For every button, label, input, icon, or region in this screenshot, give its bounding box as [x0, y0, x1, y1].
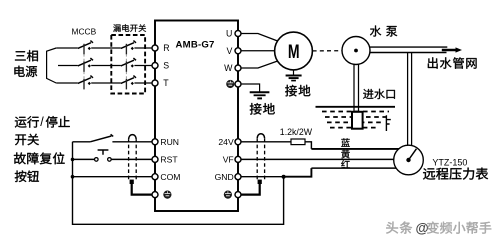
- wire RUN left: [73, 141, 91, 143]
- ELCB linkage: [125, 54, 127, 78]
- pipe to gauge: [408, 53, 412, 147]
- wire resistor to gauge (blue): [305, 142, 311, 149]
- flow arrow: [442, 49, 456, 52]
- wire V to motor: [241, 50, 275, 52]
- label 三相电源: [15, 50, 38, 61]
- terminal S: [152, 63, 158, 69]
- wire RST right: [111, 158, 152, 160]
- label 故障复位: [14, 152, 65, 164]
- MCCB linkage: [83, 54, 85, 78]
- svg-text:YTZ-150: YTZ-150: [432, 157, 467, 167]
- label 接地 motor: [285, 85, 310, 97]
- wire VF to gauge (yellow): [241, 158, 394, 160]
- pushbutton reset: [95, 158, 99, 162]
- terminal RUN: [152, 139, 158, 145]
- wire R phase: [56, 47, 78, 49]
- wire S phase: [58, 65, 78, 67]
- terminal 24V: [235, 139, 241, 145]
- svg-text:RST: RST: [160, 155, 178, 165]
- gauge YTZ-150: [394, 145, 424, 175]
- pipe outlet: [370, 47, 448, 52]
- wire GND to gauge (red): [241, 176, 284, 178]
- svg-text:GND: GND: [215, 172, 234, 182]
- svg-text:T: T: [163, 78, 169, 88]
- label 按钮: [15, 170, 39, 182]
- label 漏电开关: [113, 24, 146, 32]
- label 接地 inverter: [250, 103, 275, 115]
- junction bus-RST: [71, 158, 75, 162]
- shield cable left: [128, 139, 130, 179]
- shield terminator left: [130, 180, 134, 184]
- wire R MCCB to ELCB: [91, 47, 121, 49]
- shield terminator right: [258, 180, 262, 184]
- wire T MCCB to ELCB: [91, 82, 121, 84]
- ground inverter: [250, 92, 270, 98]
- wire T ELCB to terminal: [134, 82, 152, 84]
- terminal E control-left: [152, 192, 158, 198]
- junction GND-loop: [282, 175, 286, 179]
- breaker ELCB pole 3: [121, 76, 136, 90]
- water mark tick: [386, 115, 390, 131]
- wire COM: [73, 176, 153, 178]
- svg-text:M: M: [288, 41, 300, 63]
- terminal U: [235, 31, 241, 37]
- wire S ELCB to terminal: [134, 65, 152, 67]
- svg-text:COM: COM: [160, 172, 180, 182]
- wire 24V to resistor: [241, 141, 291, 143]
- op-amp U1 inverter AMB-G7 box: [155, 21, 238, 212]
- terminal COM: [152, 174, 158, 180]
- wire shaft coupling: [313, 50, 342, 52]
- junction bus-COM: [71, 175, 75, 179]
- terminal RST: [152, 156, 158, 162]
- breaker MCCB pole 1: [78, 41, 93, 55]
- svg-text:AMB-G7: AMB-G7: [176, 40, 215, 51]
- wire E1 to ground: [241, 84, 260, 92]
- wire shield-earth left: [132, 183, 152, 195]
- breaker ELCB pole 1: [121, 41, 136, 55]
- label 蓝: [341, 138, 350, 146]
- wire S MCCB to ELCB: [91, 65, 121, 67]
- svg-text:R: R: [163, 43, 169, 53]
- svg-text:/: /: [40, 115, 44, 129]
- wire RST left: [73, 158, 95, 160]
- foot valve: [352, 112, 363, 129]
- svg-text:RUN: RUN: [160, 137, 179, 147]
- pump P1: [342, 37, 370, 65]
- terminal E output: [226, 80, 234, 88]
- label 出水管网: [428, 57, 477, 68]
- terminal T: [152, 80, 158, 86]
- wire common bus: [73, 142, 284, 225]
- terminal V: [235, 48, 241, 54]
- terminal GND: [235, 174, 241, 180]
- breaker MCCB pole 3: [78, 76, 93, 90]
- node source bracket: [47, 48, 57, 83]
- wire shield-earth right: [241, 183, 260, 195]
- breaker MCCB pole 2: [78, 58, 93, 72]
- watermark 头条@变频小帮手: [386, 221, 491, 236]
- svg-text:V: V: [227, 46, 233, 56]
- wire R ELCB to terminal: [134, 47, 152, 49]
- svg-text:W: W: [224, 63, 233, 73]
- terminal W: [235, 65, 241, 71]
- motor M1: [275, 32, 313, 70]
- terminal VF: [235, 156, 241, 162]
- ground motor: [286, 76, 302, 81]
- svg-text:MCCB: MCCB: [72, 27, 97, 37]
- breaker ELCB pole 2: [121, 58, 136, 72]
- shield cable right: [256, 138, 258, 179]
- resistor R1: [291, 139, 305, 145]
- label 远程压力表: [423, 168, 488, 180]
- wire W to motor: [241, 61, 278, 68]
- ELCB dashed box: [111, 35, 145, 94]
- wire RUN right: [112, 141, 152, 143]
- wire motor to ground: [293, 70, 295, 75]
- water hatching: [322, 111, 389, 113]
- svg-text:24V: 24V: [218, 137, 234, 147]
- label 进水口: [363, 89, 395, 99]
- wire U to motor: [241, 34, 278, 42]
- label 水泵: [370, 26, 397, 37]
- terminal E analog: [235, 192, 241, 198]
- pipe suction: [354, 64, 359, 112]
- water surface: [316, 106, 396, 108]
- label 红: [341, 160, 350, 168]
- svg-text:@: @: [416, 221, 429, 236]
- terminal R: [152, 45, 158, 51]
- svg-text:1.2k/2W: 1.2k/2W: [280, 127, 313, 137]
- switch run/stop: [90, 136, 111, 142]
- label 运行/停止: [15, 116, 39, 128]
- wire T phase: [56, 82, 78, 84]
- svg-text:U: U: [226, 29, 232, 39]
- label 黄: [341, 150, 349, 159]
- svg-text:S: S: [163, 60, 169, 70]
- label 开关: [15, 134, 39, 146]
- svg-text:VF: VF: [223, 155, 234, 165]
